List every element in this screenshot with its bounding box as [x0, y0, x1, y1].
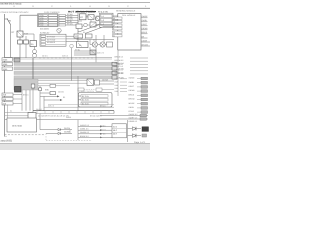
- svg-text:85 BR/GE: 85 BR/GE: [47, 41, 56, 44]
- svg-text:GEN. MODULE: GEN. MODULE: [122, 14, 136, 17]
- bus bar 3: [14, 71, 112, 74]
- svg-text:15: 15: [113, 21, 115, 24]
- wire module links: [86, 16, 118, 24]
- node column letter B: [32, 5, 34, 8]
- bus bar 3 terminal: [112, 71, 124, 75]
- svg-text:GE 0.5: GE 0.5: [42, 54, 48, 57]
- node strip labels: [38, 115, 103, 118]
- svg-text:GE/RT: GE/RT: [129, 85, 135, 88]
- right list rows lower: [129, 77, 136, 114]
- module box bottom right: [112, 124, 127, 138]
- connector circle X3: [33, 54, 37, 58]
- svg-text:31: 31: [113, 24, 115, 27]
- relay K8: [90, 22, 96, 27]
- svg-text:RT 0.5: RT 0.5: [100, 132, 105, 135]
- svg-text:2001 BMW 525i (El. Manual): 2001 BMW 525i (El. Manual): [0, 2, 21, 5]
- wire nested taps 1: [38, 80, 95, 82]
- resistor block R1: [107, 42, 113, 47]
- lamp L1: [92, 42, 97, 47]
- node wire label 1: [12, 31, 16, 34]
- node scatter wire labels: [10, 37, 104, 119]
- relay K2: [80, 14, 87, 20]
- svg-text:X18: X18: [115, 77, 118, 80]
- wire X13 to K1: [23, 34, 34, 41]
- svg-text:BR/GE: BR/GE: [142, 31, 148, 34]
- node relay carrier label: [40, 32, 50, 35]
- svg-text:RT/BL: RT/BL: [75, 49, 80, 52]
- svg-text:X18: X18: [115, 84, 118, 87]
- svg-text:POWER DISTRIBUTION BOX: POWER DISTRIBUTION BOX: [1, 11, 30, 14]
- svg-text:87 RT/GE: 87 RT/GE: [47, 36, 56, 39]
- svg-text:SW/VI: SW/VI: [66, 116, 72, 119]
- wire control unit feeds: [78, 76, 81, 111]
- relay K1: [30, 41, 37, 47]
- svg-text:K5: K5: [97, 24, 99, 27]
- svg-text:BR/SW 0.5: BR/SW 0.5: [115, 59, 124, 62]
- wire bottom row 2: [78, 128, 114, 132]
- svg-text:SW 0.75: SW 0.75: [97, 51, 104, 54]
- svg-text:GE/SW 1.5: GE/SW 1.5: [77, 37, 86, 40]
- svg-text:61 31 B: 61 31 B: [82, 99, 89, 102]
- svg-text:X18: X18: [115, 90, 118, 93]
- connector row Y2: [2, 97, 22, 101]
- connector box X23: [2, 67, 13, 71]
- wire module lower outputs: [141, 42, 150, 46]
- svg-text:30 R: 30 R: [113, 133, 118, 136]
- svg-text:GE/RT: GE/RT: [142, 23, 148, 26]
- svg-text:GN/WS 0.5: GN/WS 0.5: [80, 131, 89, 134]
- svg-text:GEN. MOD: GEN. MOD: [12, 124, 23, 127]
- svg-text:SW/GE: SW/GE: [129, 77, 136, 80]
- svg-text:X3: X3: [83, 31, 85, 34]
- connector circle X6: [70, 44, 74, 48]
- switch box S2: [74, 34, 83, 38]
- node column letter F: [108, 5, 110, 8]
- node caption left: [1, 139, 13, 142]
- wire fuse outputs: [66, 15, 79, 25]
- svg-text:BR/GE 0.5: BR/GE 0.5: [115, 56, 124, 59]
- wire feed drop: [77, 12, 79, 35]
- svg-text:X18: X18: [115, 87, 118, 90]
- relay K9: [90, 50, 96, 55]
- svg-text:58 GR: 58 GR: [118, 77, 124, 80]
- svg-text:61 31 B: 61 31 B: [82, 95, 89, 98]
- node title text: [0, 2, 21, 5]
- bus bar 4: [14, 76, 112, 79]
- node column letter E: [89, 5, 91, 8]
- switch box S3: [86, 34, 93, 38]
- svg-text:SW 0.5: SW 0.5: [62, 54, 68, 57]
- svg-text:xxxx (KG): xxxx (KG): [1, 139, 13, 142]
- module pin boxes left: [113, 17, 123, 38]
- component inline box on vertical: [31, 84, 35, 88]
- diode D2: [128, 134, 142, 138]
- svg-text:RT/GN: RT/GN: [67, 23, 73, 26]
- svg-text:K1: K1: [97, 15, 99, 18]
- wire left small list stubs: [120, 79, 127, 92]
- bottom scan band: [0, 144, 150, 150]
- svg-text:GN/BL: GN/BL: [129, 106, 134, 109]
- svg-text:A 2: A 2: [101, 19, 104, 22]
- fuse F1: [18, 40, 23, 44]
- bus bar 2: [14, 67, 112, 70]
- svg-text:GENERAL MODULE: GENERAL MODULE: [116, 9, 136, 12]
- node label row under header: [1, 9, 136, 14]
- svg-text:SW 2.5: SW 2.5: [48, 105, 54, 108]
- svg-text:61: 61: [113, 35, 115, 38]
- diode D1: [128, 127, 142, 131]
- wire drop from top bus: [19, 15, 21, 31]
- switch S1: [5, 19, 12, 25]
- svg-text:SW/GE: SW/GE: [142, 15, 149, 18]
- bus bar 1 terminal: [112, 62, 124, 66]
- wire module stub down: [117, 50, 119, 96]
- svg-text:BR 2.5: BR 2.5: [23, 93, 29, 96]
- relay K10: [87, 79, 94, 86]
- relay K7: [88, 15, 94, 20]
- wire bottom row 3: [78, 131, 114, 135]
- wire nested drops to bus: [74, 47, 96, 62]
- connector strip ticks upper: [40, 57, 92, 59]
- svg-text:SW/WS 0.5: SW/WS 0.5: [115, 62, 124, 65]
- wire right list lines upper: [130, 58, 145, 74]
- svg-text:GE/BR: GE/BR: [142, 39, 148, 42]
- svg-text:SW/BL 0.5: SW/BL 0.5: [80, 128, 89, 131]
- node left small list: [115, 77, 118, 93]
- connector circle X4: [57, 28, 61, 32]
- svg-text:BR/GE: BR/GE: [129, 93, 135, 96]
- svg-text:RT/GE: RT/GE: [129, 110, 135, 113]
- wire drop below X10: [19, 37, 21, 40]
- node cluster labels: [83, 15, 99, 42]
- fuse box block: [38, 14, 59, 27]
- svg-text:SW/BL: SW/BL: [129, 81, 135, 84]
- component box B2: [95, 80, 100, 85]
- svg-text:58 G: 58 G: [113, 129, 118, 132]
- wire cluster links: [78, 17, 99, 27]
- svg-text:86 RT/SW: 86 RT/SW: [47, 38, 56, 41]
- wire module outputs right: [141, 18, 148, 38]
- svg-text:GE/GN: GE/GN: [64, 127, 71, 130]
- wire nested taps 2: [38, 82, 95, 84]
- svg-text:A112 CONTROL: A112 CONTROL: [81, 90, 94, 93]
- connector inline row: [78, 88, 114, 91]
- wire relay carrier outputs: [66, 36, 78, 41]
- node lower output labels: [142, 39, 149, 46]
- svg-text:GN 0.5: GN 0.5: [36, 108, 42, 111]
- svg-text:WS/SW: WS/SW: [142, 43, 149, 46]
- svg-text:BR/SW: BR/SW: [129, 98, 135, 101]
- node caption right: [134, 141, 146, 144]
- node labels left of module: [100, 124, 106, 135]
- wire module bottom drop: [127, 120, 129, 142]
- component box B1: [76, 24, 82, 29]
- relay carrier block: [40, 34, 66, 46]
- wire vertical through bars: [32, 58, 34, 84]
- wire lamp feeds: [78, 35, 107, 45]
- wire bus upper rail: [5, 57, 112, 59]
- svg-text:GN/WS: GN/WS: [142, 27, 149, 30]
- connector strip cells: [37, 111, 109, 114]
- wire heavy feed: [76, 11, 96, 13]
- svg-text:WS/GE 0.5: WS/GE 0.5: [115, 72, 124, 75]
- svg-text:BR 0.5: BR 0.5: [100, 124, 106, 127]
- svg-text:50: 50: [113, 31, 115, 34]
- wire left strip feeders: [5, 105, 33, 119]
- connector box X20: [14, 58, 20, 62]
- svg-text:SW/BL: SW/BL: [142, 19, 148, 22]
- terminal boxes bottom right: [140, 114, 147, 120]
- module box bottom left: [7, 118, 37, 132]
- svg-text:BR/GE 0.5: BR/GE 0.5: [80, 135, 89, 138]
- bus bar 4 terminal: [112, 76, 124, 80]
- wire diagonal harness 2: [85, 27, 104, 34]
- wire right lower list stubs: [137, 79, 141, 113]
- wire dashed link: [46, 133, 92, 140]
- connector box X22: [2, 62, 13, 66]
- connector circle X5: [95, 16, 100, 21]
- svg-text:GE/RT 0.5: GE/RT 0.5: [115, 65, 123, 68]
- node fuse footnote: [40, 28, 49, 31]
- svg-text:30: 30: [113, 17, 115, 20]
- connector strip main: [33, 111, 114, 114]
- svg-text:BR GE SW RT: BR GE SW RT: [90, 115, 103, 118]
- general module box: [118, 14, 141, 50]
- control unit box rounded: [79, 90, 113, 107]
- svg-text:X18: X18: [115, 81, 118, 84]
- terminal box below dark block: [142, 134, 147, 137]
- module block right of relay: [100, 13, 114, 27]
- node column letter D: [70, 5, 72, 8]
- wire box bottom dashes: [5, 134, 45, 136]
- wire frame bottom stub: [5, 135, 8, 137]
- svg-text:30A MAXI: 30A MAXI: [40, 28, 49, 31]
- svg-text:GN/WS: GN/WS: [129, 89, 136, 92]
- wire diagonal harness 1: [80, 25, 99, 32]
- right list rows upper: [115, 56, 124, 75]
- wire relay outputs: [100, 81, 115, 84]
- wire top bus: [20, 14, 38, 16]
- node bottom right labels: [129, 113, 138, 123]
- connector row Y1: [2, 93, 22, 97]
- wire switch drop: [10, 25, 12, 58]
- svg-text:GE/GN: GE/GN: [58, 91, 64, 94]
- svg-text:GE/BR 0.5: GE/BR 0.5: [129, 120, 138, 123]
- connector circle X2: [33, 50, 37, 54]
- node column letter G: [127, 5, 129, 8]
- fuse F2: [24, 36, 29, 44]
- relay K4: [28, 113, 36, 122]
- diode circuit bottom 2: [46, 131, 72, 135]
- component small box mid: [50, 84, 56, 87]
- svg-text:GR 0.5: GR 0.5: [100, 128, 106, 131]
- node column letter C: [51, 5, 53, 8]
- connector box X21: [2, 58, 13, 62]
- wire ground drops: [22, 88, 44, 111]
- svg-text:GE/BR: GE/BR: [64, 131, 71, 134]
- svg-text:61 31 B: 61 31 B: [82, 103, 89, 106]
- connector circle X7: [84, 23, 88, 27]
- svg-text:GE SW BR RT GN WS BL GR GE SW: GE SW BR RT GN WS BL GR GE SW: [38, 115, 69, 118]
- wire right upper line ends: [145, 58, 148, 74]
- wire header rule: [0, 7, 150, 9]
- wire drop to diode row: [40, 114, 70, 134]
- bus bar 2 terminal: [112, 67, 124, 71]
- svg-text:SW/RT 0.5: SW/RT 0.5: [129, 116, 138, 119]
- svg-text:GE/SW: GE/SW: [102, 78, 108, 81]
- svg-text:A 1: A 1: [101, 15, 104, 18]
- wire nested taps 3: [38, 85, 70, 87]
- wire under control box: [44, 105, 114, 108]
- wire fuse drops: [20, 44, 26, 58]
- wire frame left border: [4, 14, 6, 137]
- connector block dark: [142, 127, 149, 132]
- lamp module block: [77, 42, 89, 48]
- wire K1 to X2: [34, 47, 36, 50]
- connector X10: [17, 31, 29, 37]
- node relay output label: [102, 78, 108, 81]
- lamp L2: [100, 42, 105, 47]
- wire X6 drop: [71, 48, 73, 81]
- fuse column 2: [59, 14, 66, 26]
- svg-text:SW/GE 0.5: SW/GE 0.5: [80, 124, 89, 127]
- svg-text:BR 2.5: BR 2.5: [100, 105, 106, 108]
- svg-text:GN/BL 0.5: GN/BL 0.5: [115, 68, 123, 71]
- bus bar 1: [14, 62, 112, 65]
- relay K3 on ground block: [15, 87, 22, 93]
- node fuse output labels: [67, 13, 74, 26]
- wire bottom rows left vertical: [77, 120, 79, 140]
- wire lamp top rail: [77, 39, 115, 41]
- wire harness run: [78, 25, 114, 32]
- node column letter A: [13, 5, 15, 8]
- svg-text:SW/GE 0.5: SW/GE 0.5: [129, 113, 138, 116]
- wire bottom row 1: [78, 124, 114, 128]
- svg-text:F5 30: F5 30: [39, 24, 44, 27]
- transistor circuit Q1: [39, 86, 66, 101]
- wire top page rule: [0, 2, 150, 4]
- svg-text:S1: S1: [93, 39, 95, 42]
- wire long rail: [5, 119, 114, 121]
- wire X4 drop: [58, 33, 60, 35]
- svg-text:31: 31: [10, 110, 12, 113]
- diode circuit bottom: [40, 127, 72, 131]
- terminal boxes right lower: [141, 77, 148, 113]
- svg-text:WS/GE: WS/GE: [129, 102, 136, 105]
- node column letter H: [145, 5, 147, 8]
- connector row Y3: [2, 102, 22, 106]
- svg-text:FUSE CARRIER: FUSE CARRIER: [44, 11, 60, 14]
- ground block G1: [14, 79, 38, 90]
- wire bottom row 4: [78, 135, 112, 139]
- node module output labels: [142, 15, 149, 38]
- bottom right rows: [100, 116, 148, 119]
